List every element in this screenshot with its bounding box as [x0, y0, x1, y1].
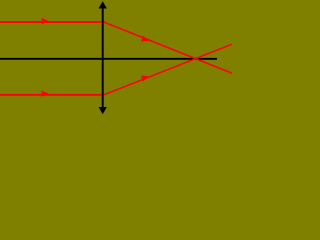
- optical axis (principal axis): [0, 58, 217, 60]
- ray 2 refracted (ascending through focal point): [104, 44, 232, 95]
- lens top arrowhead: [99, 1, 107, 8]
- ray 1 refracted (descending through focal point): [104, 22, 232, 73]
- ray 1 refracted arrowhead: [141, 36, 149, 42]
- converging lens ray diagram: [0, 0, 232, 117]
- lens bottom arrowhead: [99, 107, 107, 114]
- ray 2 arrowhead: [42, 90, 49, 96]
- ray 2 incident (bottom, parallel to axis): [0, 94, 105, 96]
- ray 2 refracted arrowhead: [141, 76, 149, 82]
- ray 1 incident (top, parallel to axis): [0, 21, 105, 23]
- ray 1 arrowhead: [42, 18, 49, 24]
- lens (vertical double-headed arrow): [102, 6, 104, 110]
